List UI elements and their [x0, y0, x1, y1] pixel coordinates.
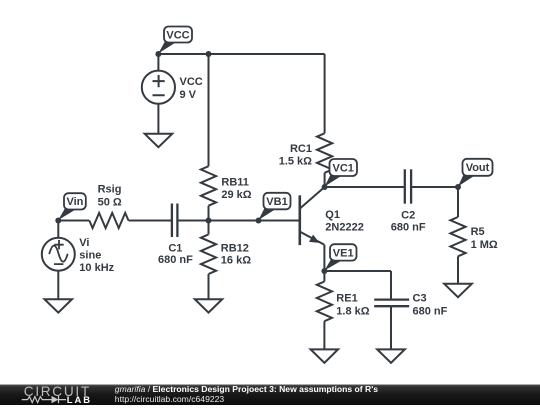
svg-text:680 nF: 680 nF — [413, 306, 448, 318]
svg-text:C3: C3 — [413, 293, 427, 305]
svg-text:Vout: Vout — [466, 162, 490, 174]
svg-text:Vi: Vi — [79, 237, 89, 249]
svg-text:sine: sine — [79, 250, 101, 262]
svg-text:680 nF: 680 nF — [391, 222, 426, 234]
svg-text:RE1: RE1 — [336, 292, 357, 304]
svg-text:680 nF: 680 nF — [158, 254, 193, 266]
svg-text:VCC: VCC — [180, 76, 203, 88]
svg-text:RB11: RB11 — [221, 177, 249, 189]
svg-text:R5: R5 — [471, 226, 485, 238]
svg-text:http://circuitlab.com/c649223: http://circuitlab.com/c649223 — [115, 394, 225, 404]
svg-text:VCC: VCC — [166, 29, 189, 41]
svg-text:RC1: RC1 — [290, 143, 312, 155]
svg-text:16 kΩ: 16 kΩ — [221, 255, 251, 267]
svg-text:RB12: RB12 — [221, 242, 249, 254]
svg-text:1 MΩ: 1 MΩ — [471, 239, 498, 251]
svg-text:gmarifia / Electronics Design: gmarifia / Electronics Design Projoect 3… — [115, 384, 379, 394]
svg-text:9 V: 9 V — [180, 89, 197, 101]
svg-text:Rsig: Rsig — [98, 184, 122, 196]
svg-text:VC1: VC1 — [332, 162, 353, 174]
svg-text:10 kHz: 10 kHz — [79, 262, 114, 274]
svg-text:29 kΩ: 29 kΩ — [221, 189, 251, 201]
svg-text:LAB: LAB — [67, 394, 92, 405]
svg-text:1.8 kΩ: 1.8 kΩ — [336, 305, 369, 317]
svg-text:VB1: VB1 — [266, 196, 287, 208]
svg-text:Q1: Q1 — [325, 209, 340, 221]
svg-text:VE1: VE1 — [333, 247, 354, 259]
svg-text:Vin: Vin — [66, 196, 83, 208]
svg-text:2N2222: 2N2222 — [325, 222, 364, 234]
svg-text:C2: C2 — [401, 210, 415, 222]
svg-text:1.5 kΩ: 1.5 kΩ — [279, 156, 312, 168]
svg-text:50 Ω: 50 Ω — [98, 197, 122, 209]
svg-text:C1: C1 — [168, 242, 182, 254]
